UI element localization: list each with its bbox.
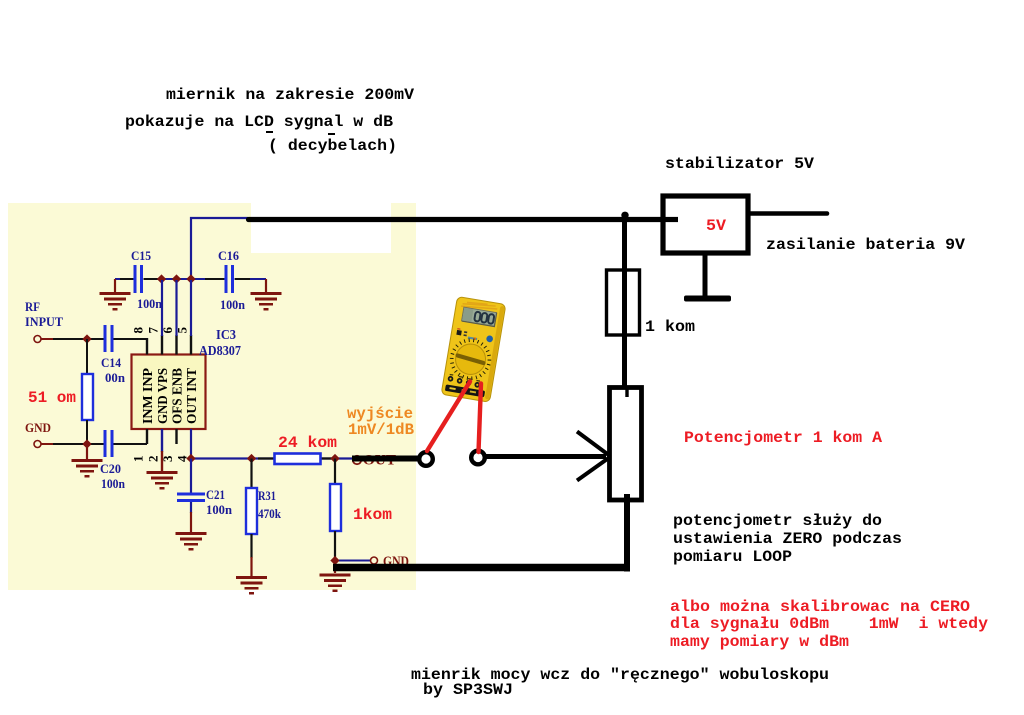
- stray dash mark 1: [266, 131, 273, 133]
- svg-text:100n: 100n: [101, 477, 125, 491]
- svg-text:00n: 00n: [105, 371, 125, 385]
- ground at pin 2: [147, 471, 178, 490]
- svg-text:3: 3: [160, 455, 175, 462]
- svg-text:2: 2: [146, 456, 161, 463]
- svg-text:GND: GND: [25, 421, 51, 435]
- svg-text:stabilizator 5V: stabilizator 5V: [665, 155, 814, 173]
- svg-text:C21: C21: [206, 488, 225, 502]
- svg-text:C16: C16: [218, 249, 239, 263]
- svg-text:RF: RF: [25, 300, 40, 314]
- wire black stubs at C15/C16: [120, 278, 250, 280]
- ground at C15: [114, 279, 116, 292]
- svg-text:ustawienia ZERO podczas: ustawienia ZERO podczas: [673, 530, 902, 548]
- terminal OUT circle: [353, 456, 361, 464]
- wire GND input: [41, 443, 53, 445]
- svg-text:100n: 100n: [206, 503, 232, 517]
- resistor R31 470k: [250, 459, 252, 489]
- svg-text:1mV/1dB: 1mV/1dB: [348, 421, 414, 439]
- svg-text:1kom: 1kom: [353, 506, 392, 524]
- stray dash mark 2: [328, 133, 335, 135]
- thick wire 5V rail top: [249, 217, 666, 222]
- junction node RF: [82, 334, 91, 343]
- stabilizer U1 box: [663, 196, 748, 253]
- probe ring 2: [471, 451, 485, 465]
- terminal GND out: [371, 557, 378, 564]
- svg-text:OUT INT: OUT INT: [185, 367, 200, 424]
- svg-text:dla sygnału 0dBm 1mW i wte: dla sygnału 0dBm 1mW i wtedy: [670, 615, 988, 633]
- wire junction down to 51om: [86, 339, 88, 374]
- multimeter (photo-style): [441, 297, 506, 403]
- svg-text:Potencjometr 1 kom A: Potencjometr 1 kom A: [684, 429, 882, 447]
- capacitor C20: [104, 430, 107, 457]
- wire 51om to GND node: [86, 420, 88, 444]
- pin 4 wire: [190, 429, 192, 459]
- probe ring 1: [419, 452, 433, 466]
- svg-text:( decybelach): ( decybelach): [268, 137, 397, 155]
- svg-text:INPUT: INPUT: [25, 315, 64, 329]
- svg-text:C14: C14: [101, 356, 122, 370]
- svg-text:470k: 470k: [258, 507, 281, 521]
- thick wire down to divider: [622, 219, 627, 392]
- potentiometer body: [610, 388, 642, 501]
- potentiometer bottom wire: [624, 494, 630, 572]
- junction diamonds on rail: [157, 274, 166, 283]
- red probe wire 1: [427, 382, 470, 452]
- wire to GND terminal: [339, 560, 370, 562]
- ground at bottom GND node: [334, 561, 336, 574]
- svg-text:C15: C15: [131, 249, 151, 263]
- svg-text:pokazuje na LCD sygnal w dB: pokazuje na LCD sygnal w dB: [125, 113, 393, 131]
- svg-text:51 om: 51 om: [28, 389, 76, 407]
- terminal GND input: [34, 441, 41, 448]
- wire horizontal decoupling rail: [115, 278, 266, 280]
- op-amp IC3 AD8307 body: [132, 355, 206, 430]
- stabilizer input stub: [665, 217, 678, 222]
- potentiometer top stub: [625, 386, 628, 397]
- thick wire OUT to probe ring: [352, 456, 420, 462]
- ground at C21: [190, 502, 192, 513]
- svg-text:INM INP: INM INP: [141, 368, 156, 424]
- thick wire ring2 to potentiometer arrow: [484, 454, 606, 459]
- resistor 51 om: [82, 374, 93, 420]
- svg-text:OFS ENB: OFS ENB: [171, 368, 186, 424]
- svg-text:1 kom: 1 kom: [645, 318, 695, 336]
- junction node bottom GND: [330, 556, 339, 565]
- svg-text:potencjometr służy do: potencjometr służy do: [673, 512, 882, 530]
- pin 6 wire: [175, 335, 177, 355]
- svg-text:albo można skalibrowac na CERO: albo można skalibrowac na CERO: [670, 598, 970, 616]
- pin 5 wire: [190, 335, 192, 355]
- svg-text:5: 5: [175, 327, 190, 334]
- svg-text:IC3: IC3: [216, 327, 236, 342]
- schematic yellow background sheet: [8, 203, 416, 590]
- svg-text:100n: 100n: [220, 298, 245, 312]
- svg-text:C20: C20: [100, 462, 121, 476]
- junction node 1kom top: [330, 454, 339, 463]
- pin 8 stub: [146, 338, 148, 355]
- junction node pin4: [186, 454, 195, 463]
- svg-text:7: 7: [146, 327, 161, 334]
- white notch over yellow sheet: [251, 203, 391, 253]
- pin 2 wire to ground: [161, 429, 163, 452]
- capacitor C16: [225, 265, 228, 293]
- junction node GND input: [82, 439, 91, 448]
- wire output rail: [191, 457, 352, 459]
- resistor 1kom: [334, 459, 336, 485]
- wire stabilizer output: [748, 211, 827, 216]
- svg-text:zasilanie bateria 9V: zasilanie bateria 9V: [766, 236, 965, 254]
- wire RF input to C14: [41, 338, 53, 340]
- capacitor C15: [134, 265, 137, 293]
- junction dot on 5V rail: [621, 212, 628, 219]
- svg-text:R31: R31: [258, 489, 276, 503]
- capacitor C21: [190, 459, 192, 493]
- ground at R31: [236, 576, 267, 595]
- resistor 24 kom: [275, 454, 321, 465]
- terminal RF input: [34, 336, 41, 343]
- ground at stabilizer: [703, 253, 708, 297]
- svg-text:6: 6: [160, 327, 175, 334]
- svg-text:100n: 100n: [137, 297, 162, 311]
- ground at C16: [265, 279, 267, 292]
- svg-text:8: 8: [131, 327, 146, 334]
- thick ground return wire bottom: [333, 564, 630, 572]
- capacitor C14: [104, 325, 107, 352]
- svg-text:5V: 5V: [706, 217, 726, 235]
- arrowhead at potentiometer wiper: [577, 432, 610, 481]
- svg-text:by SP3SWJ: by SP3SWJ: [423, 681, 513, 699]
- wire R31 to ground: [250, 534, 252, 558]
- svg-text:24 kom: 24 kom: [278, 434, 337, 452]
- pin 7 wire: [161, 335, 163, 355]
- ground at input node: [86, 444, 88, 459]
- resistor 1 kom (series): [607, 270, 640, 335]
- svg-text:mamy pomiary w dBm: mamy pomiary w dBm: [670, 633, 849, 651]
- junction node R31 top: [247, 454, 256, 463]
- svg-text:1: 1: [131, 456, 146, 463]
- svg-text:miernik na zakresie 200mV: miernik na zakresie 200mV: [166, 86, 414, 104]
- svg-text:AD8307: AD8307: [199, 343, 241, 358]
- svg-text:GND VPS: GND VPS: [156, 368, 171, 424]
- red probe wire 2: [479, 384, 482, 453]
- pin 1 stub: [146, 429, 148, 444]
- svg-text:pomiaru LOOP: pomiaru LOOP: [673, 548, 792, 566]
- pin 3 stub NC: [175, 429, 177, 444]
- wire supply rail corner (to 5V): [191, 218, 248, 280]
